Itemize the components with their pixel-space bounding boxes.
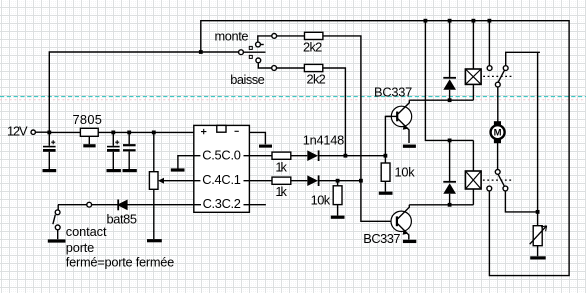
node 12V input terminal bbox=[31, 130, 35, 134]
switch S2 contact porte bbox=[48, 205, 66, 241]
capacitor C2 electrolytic bbox=[107, 132, 121, 170]
svg-text:1k: 1k bbox=[275, 159, 287, 174]
wire 1k to diode row2 bbox=[291, 180, 308, 182]
wire baisse 2k2 to row1 bbox=[323, 68, 346, 156]
transistor Q1 BC337 upper bbox=[385, 100, 416, 146]
switch S1 monte/baisse common bbox=[239, 46, 266, 58]
svg-text:porte: porte bbox=[66, 240, 95, 255]
svg-text:monte: monte bbox=[215, 28, 249, 43]
diode D4 flyback upper bbox=[443, 21, 456, 101]
diode D2 1n4148 bbox=[307, 175, 318, 186]
ground 7805 bbox=[83, 144, 95, 147]
transistor Q2 BC337 lower bbox=[391, 205, 416, 242]
pink margin dashed line bbox=[0, 99, 586, 101]
diode D5 flyback lower bbox=[443, 140, 456, 204]
resistor R2 2k2 baisse bbox=[304, 64, 322, 71]
relay coil K2 lower bbox=[465, 140, 481, 204]
svg-text:contact: contact bbox=[66, 224, 107, 239]
svg-text:C.5C.0: C.5C.0 bbox=[202, 147, 241, 162]
svg-text:bat85: bat85 bbox=[107, 212, 138, 227]
wire rail to coil junction line bbox=[425, 21, 473, 141]
svg-text:12V: 12V bbox=[7, 124, 28, 139]
wire row2 diode to monte line bbox=[320, 180, 361, 182]
wire C.5 pin to ground bbox=[178, 156, 194, 169]
svg-text:2k2: 2k2 bbox=[307, 71, 326, 86]
wire 12V riser left bbox=[49, 52, 238, 132]
motor M1 bbox=[491, 122, 505, 169]
ground Q2 emitter bbox=[403, 240, 416, 243]
diode D1 1n4148 bbox=[307, 150, 318, 161]
rheostat R9 bbox=[530, 212, 547, 258]
resistor R8 10k pulldown row1 bbox=[379, 156, 393, 194]
svg-text:2k2: 2k2 bbox=[303, 40, 322, 55]
svg-text:fermé=porte fermée: fermé=porte fermée bbox=[66, 255, 175, 270]
resistor R1 2k2 monte bbox=[305, 32, 323, 39]
wire upper collector line bbox=[409, 99, 473, 101]
ground C2 bbox=[107, 169, 121, 172]
svg-text:1n4148: 1n4148 bbox=[303, 132, 344, 147]
capacitor C1 electrolytic bbox=[43, 132, 57, 170]
ground P1 bbox=[147, 239, 162, 242]
ground C.5 bbox=[171, 168, 185, 171]
potentiometer P1 bbox=[147, 132, 194, 240]
svg-text:BC337: BC337 bbox=[374, 85, 412, 100]
wire base riser upper transistor bbox=[385, 116, 391, 155]
teal dashed guide line bbox=[0, 96, 586, 98]
wire bat85 row bbox=[58, 204, 194, 206]
svg-text:C.3C.2: C.3C.2 bbox=[203, 196, 241, 211]
ground S2 bbox=[48, 239, 66, 242]
switch monte contact bbox=[256, 34, 305, 47]
wire 12V terminal to rail bbox=[35, 131, 49, 133]
IC U1 box bbox=[194, 125, 250, 212]
regulator U2 7805 bbox=[80, 128, 98, 146]
svg-text:10k: 10k bbox=[395, 165, 416, 180]
wire row3 stub bbox=[249, 204, 266, 206]
node connector on bat85 wire bbox=[87, 202, 92, 207]
ground C1 bbox=[43, 169, 57, 172]
wire row2 IC to R 1k bbox=[249, 180, 272, 182]
wire row1 IC to R 1k bbox=[249, 155, 272, 157]
ground Q1 emitter bbox=[403, 145, 416, 148]
wire monte 2k2 to lower base bbox=[323, 36, 391, 221]
svg-text:BC337: BC337 bbox=[363, 231, 400, 246]
switch baisse contact bbox=[256, 58, 305, 70]
ground C3 bbox=[123, 169, 137, 172]
svg-text:7805: 7805 bbox=[73, 112, 102, 127]
relay coil K1 upper bbox=[465, 21, 481, 101]
svg-text:M: M bbox=[494, 128, 502, 139]
ground R8 bbox=[379, 192, 393, 195]
ground R9 bbox=[530, 256, 546, 259]
resistor R7 10k pulldown row2 bbox=[331, 181, 345, 218]
svg-text:baisse: baisse bbox=[230, 72, 264, 87]
svg-text:C.4C.1: C.4C.1 bbox=[202, 172, 241, 187]
wire IC minus pin to ground bbox=[249, 132, 265, 144]
resistor R3 1k bbox=[272, 152, 291, 159]
capacitor C3 ceramic bbox=[123, 132, 137, 170]
wire 1k to diode row1 bbox=[291, 155, 308, 157]
svg-text:10k: 10k bbox=[311, 192, 331, 207]
relay contact K2 switch lower bbox=[483, 170, 538, 212]
diode D3 bat85 bbox=[117, 200, 128, 211]
relay contact K1 switch upper bbox=[483, 21, 540, 212]
wire main 12V rail to IC bbox=[49, 131, 194, 133]
svg-text:1k: 1k bbox=[275, 184, 287, 199]
ground IC bbox=[259, 145, 272, 148]
wire top rail bbox=[201, 21, 569, 276]
wire lower collector line bbox=[409, 204, 473, 206]
ground R7 bbox=[331, 216, 345, 219]
wire row1 diode to base junction bbox=[320, 155, 386, 157]
resistor R4 1k bbox=[272, 177, 291, 184]
